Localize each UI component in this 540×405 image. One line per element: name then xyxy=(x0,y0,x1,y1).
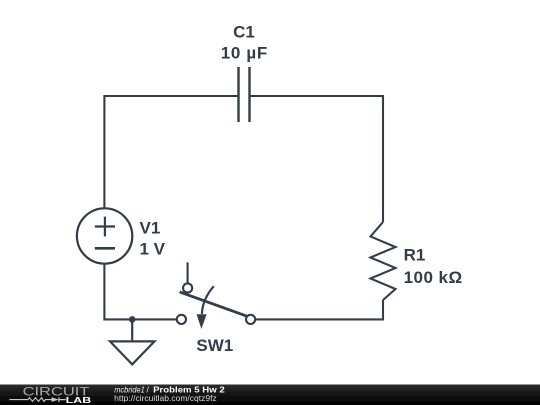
junction node (ground tap) xyxy=(129,316,136,323)
wire top-left horizontal (V1 top to C1 left plate) xyxy=(104,96,238,209)
svg-text:V1: V1 xyxy=(140,218,161,237)
switch SW1 xyxy=(177,262,255,329)
CircuitLab logo resistor-diode glyph xyxy=(9,397,65,402)
ground xyxy=(110,319,155,364)
svg-text:SW1: SW1 xyxy=(196,336,233,355)
svg-text:1 V: 1 V xyxy=(140,239,166,258)
svg-text:LAB: LAB xyxy=(66,396,92,405)
resistor R1 xyxy=(371,222,396,300)
svg-text:C1: C1 xyxy=(233,23,255,42)
wire top-right horizontal (C1 right plate to R1 top) xyxy=(250,96,384,222)
wire bottom-left (V1 minus terminal to SW1 left terminal) xyxy=(104,263,176,319)
svg-text:http://circuitlab.com/cqtz9fz: http://circuitlab.com/cqtz9fz xyxy=(114,393,217,403)
footer bar xyxy=(0,385,540,405)
svg-text:10 µF: 10 µF xyxy=(221,44,268,63)
svg-text:R1: R1 xyxy=(404,246,426,265)
wire bottom-right (SW1 right terminal to R1 bottom) xyxy=(255,300,383,319)
voltage source V1 xyxy=(77,208,132,263)
capacitor C1 xyxy=(239,67,250,122)
svg-text:100 kΩ: 100 kΩ xyxy=(404,268,463,287)
